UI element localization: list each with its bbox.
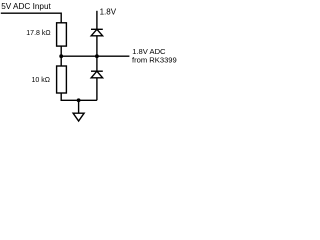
svg-text:from RK3399: from RK3399 xyxy=(132,56,177,65)
svg-text:5V ADC Input: 5V ADC Input xyxy=(1,2,51,11)
svg-text:1.8V: 1.8V xyxy=(100,7,117,16)
svg-text:10 kΩ: 10 kΩ xyxy=(32,77,50,84)
svg-text:17.8 kΩ: 17.8 kΩ xyxy=(26,30,50,37)
